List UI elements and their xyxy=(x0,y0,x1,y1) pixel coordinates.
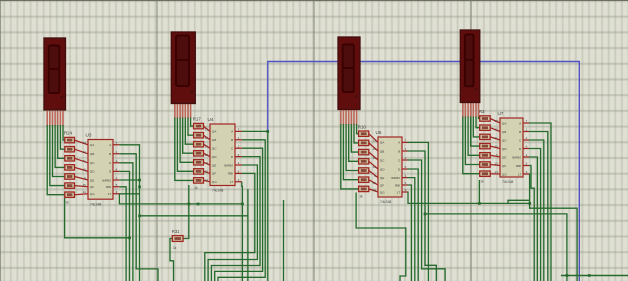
wire DISP1 common down to bottom bus xyxy=(65,198,130,238)
svg-text:QD: QD xyxy=(380,167,385,171)
svg-text:QF: QF xyxy=(380,183,384,187)
wire U7 pin B (1) down xyxy=(529,132,548,281)
resistor R17 element 6 xyxy=(194,169,204,174)
svg-text:14: 14 xyxy=(204,178,208,182)
wire DISP1 segment pin 4 to R24 resistor 4 xyxy=(55,125,65,167)
svg-text:RBI: RBI xyxy=(228,172,233,176)
resistor R3 element 5 xyxy=(480,153,491,158)
wire bus2 vertical upper extension xyxy=(247,189,249,216)
wire U3 pin LT (3) xyxy=(119,193,139,195)
wire DISP3 segment pin 2 to R10 resistor 6 xyxy=(343,124,358,180)
wire U7 pin A (7) down xyxy=(529,123,551,281)
wire U5 pin BI/RBO (4) down xyxy=(408,178,415,281)
wire junction at 129.5,237.8 xyxy=(128,237,131,240)
svg-text:QF: QF xyxy=(212,172,216,176)
svg-text:U7: U7 xyxy=(498,111,504,116)
svg-text:R3: R3 xyxy=(479,109,485,114)
svg-text:QD: QD xyxy=(90,170,95,174)
wire U4 pin A (7) junction with blue, down xyxy=(242,131,268,281)
svg-text:R17: R17 xyxy=(193,117,202,122)
svg-text:B: B xyxy=(398,149,400,153)
wire DISP3 common down under U5 and to bottom edge xyxy=(356,193,406,281)
wire U5 pin D (6) down xyxy=(408,169,419,281)
resistor R17 element 5 xyxy=(194,160,204,165)
svg-text:10: 10 xyxy=(372,165,376,169)
wire DISP1 segment pin 5 to R24 resistor 3 xyxy=(58,125,65,158)
svg-text:U4: U4 xyxy=(208,117,214,122)
wire DISP3 segment pin 7 to R10 resistor 1 xyxy=(357,124,359,134)
svg-text:QB: QB xyxy=(380,149,384,153)
svg-text:QD: QD xyxy=(502,147,507,151)
svg-text:R31: R31 xyxy=(172,229,180,234)
wire U7 pin LT (3) down to long run right xyxy=(529,174,577,281)
svg-text:1k: 1k xyxy=(359,195,363,199)
svg-text:74LS48: 74LS48 xyxy=(502,180,514,184)
wire DISP1 segment pin 7 to R24 resistor 1 xyxy=(63,125,65,140)
resistor R10 element 4 xyxy=(359,159,369,164)
resistor R24 element 7 xyxy=(65,192,75,197)
wire U7 pin RBI (5) jog down xyxy=(529,166,534,281)
7-segment display DISP2 xyxy=(171,32,195,104)
svg-text:QF: QF xyxy=(90,185,94,189)
svg-text:13: 13 xyxy=(82,141,86,145)
svg-text:15: 15 xyxy=(494,162,498,166)
resistor R17 element 2 xyxy=(194,133,204,138)
svg-text:74LS48: 74LS48 xyxy=(90,202,102,206)
wire DISP2 segment pin 1 to R17 resistor 7 xyxy=(175,118,194,181)
resistor R17 element 3 xyxy=(194,142,204,147)
decoder U3 left pin stubs xyxy=(75,140,89,195)
svg-text:LT: LT xyxy=(108,192,111,196)
resistor R31 body xyxy=(172,236,183,242)
svg-text:15: 15 xyxy=(204,170,208,174)
wire DISP1 segment pin 1 to R24 resistor 7 xyxy=(47,125,65,195)
resistor R24 element 5 xyxy=(65,174,75,179)
resistor R10 element 2 xyxy=(359,140,369,145)
wire U7 pin BI/RBO (4) down xyxy=(529,157,537,281)
7-seg display DISP2 pin leads xyxy=(175,104,191,119)
svg-text:R24: R24 xyxy=(64,131,73,136)
svg-text:QE: QE xyxy=(90,178,94,182)
svg-text:13: 13 xyxy=(494,119,498,123)
wire U5 pin LT (3) bus A xyxy=(408,192,530,203)
wire DISP3 segment pin 6 to R10 resistor 2 xyxy=(354,124,359,143)
wire DISP4 segment pin 2 to R3 resistor 6 xyxy=(465,117,479,165)
wire U3 pin D (6) down xyxy=(119,171,129,281)
svg-text:QE: QE xyxy=(502,155,506,159)
svg-text:12: 12 xyxy=(204,136,208,140)
svg-text:14: 14 xyxy=(494,170,498,174)
resistor R3 element 4 xyxy=(480,143,491,148)
svg-text:U3: U3 xyxy=(86,132,92,137)
svg-text:QB: QB xyxy=(212,138,216,142)
resistor R10 element 7 xyxy=(359,186,369,191)
wire blue net from U4 pin A up across to right side xyxy=(268,62,580,281)
decoder U4 74LS48 body xyxy=(210,124,235,186)
svg-text:RBI: RBI xyxy=(395,183,400,187)
wire junction at 139.5,180 xyxy=(138,179,141,182)
wire DISP2 segment pin 2 to R17 resistor 6 xyxy=(177,118,193,172)
wire U3 pin A (7) down and bus2 xyxy=(119,145,248,281)
svg-text:QG: QG xyxy=(212,180,217,184)
svg-text:1k: 1k xyxy=(480,179,484,183)
svg-text:QC: QC xyxy=(212,147,217,151)
7-seg display DISP3 pin leads xyxy=(341,110,357,125)
wire junction at 267.8,131.4 xyxy=(266,130,269,133)
decoder U3 right pin stubs xyxy=(113,145,119,194)
resistor R17 element 7 xyxy=(194,178,204,183)
resistor R24 element 3 xyxy=(65,156,75,161)
wire U4 pin B (1) staircase xyxy=(218,140,265,281)
wire U4 pin LT (3) down xyxy=(241,182,244,281)
wire U5 pin A (7) down xyxy=(408,142,429,281)
wire vertical net right of U4 xyxy=(283,200,285,281)
wire bottom right bus xyxy=(561,275,628,277)
wire DISP2 segment pin 6 to R17 resistor 2 xyxy=(188,118,194,136)
resistor R3 element 2 xyxy=(480,125,491,130)
svg-text:QC: QC xyxy=(380,158,385,162)
wire junction at 188.8,203.9 xyxy=(188,203,191,206)
resistor R17 element 4 xyxy=(194,151,204,156)
wire U4 pin BI/RBO (4) staircase xyxy=(208,165,257,281)
svg-text:QC: QC xyxy=(502,138,507,142)
decoder U7 left pin stubs xyxy=(490,119,500,175)
svg-text:1k: 1k xyxy=(194,186,198,190)
wire R31 lower lead to bottom edge xyxy=(170,239,174,281)
resistor R10 element 3 xyxy=(359,149,369,154)
7-seg display DISP1 pin leads xyxy=(47,111,63,126)
svg-text:13: 13 xyxy=(204,128,208,132)
decoder U7 74LS48 body xyxy=(500,118,523,177)
wire junction at 242.4,203.9 xyxy=(241,203,244,206)
wire U3 pin B (1) down to bottom jog xyxy=(119,154,158,281)
svg-text:LT: LT xyxy=(230,180,233,184)
svg-text:10: 10 xyxy=(204,153,208,157)
wire U5 pin B (1) to bus B xyxy=(408,151,426,214)
wire junction at 425,213.9 xyxy=(424,213,427,216)
svg-text:14: 14 xyxy=(82,190,86,194)
7-segment display DISP4 xyxy=(460,30,480,103)
wire DISP1 segment pin 3 to R24 resistor 5 xyxy=(53,125,65,177)
svg-text:12: 12 xyxy=(372,147,376,151)
wire DISP4 segment pin 6 to R3 resistor 2 xyxy=(476,117,480,128)
resistor R3 element 6 xyxy=(480,162,491,167)
wire DISP3 segment pin 3 to R10 resistor 5 xyxy=(346,124,359,171)
resistor R3 element 3 xyxy=(480,134,491,139)
svg-text:BI/RBO: BI/RBO xyxy=(102,178,111,182)
resistor R3 element 1 xyxy=(480,116,491,121)
wire DISP3 segment pin 1 to R10 resistor 7 xyxy=(341,124,359,189)
wire DISP1 segment pin 2 to R24 resistor 6 xyxy=(50,125,65,186)
svg-text:RBI: RBI xyxy=(106,185,111,189)
wire U3 pin BI/RBO (4) xyxy=(119,179,139,181)
wire bus A step jog xyxy=(508,200,530,203)
svg-text:11: 11 xyxy=(373,156,376,160)
wire junction at 479.4,203.4 xyxy=(478,202,481,205)
wire DISP3 segment pin 4 to R10 resistor 4 xyxy=(349,124,359,161)
7-segment display DISP1 xyxy=(44,38,66,110)
wire DISP4 segment pin 3 to R3 resistor 5 xyxy=(468,117,480,156)
wire bus1 branch from LT net xyxy=(119,194,242,204)
wire DISP4 common down to bus A xyxy=(478,180,480,203)
svg-text:QD: QD xyxy=(212,155,217,159)
wire DISP4 segment pin 1 to R3 resistor 7 xyxy=(463,117,480,174)
wire DISP2 segment pin 3 to R17 resistor 5 xyxy=(180,118,194,163)
svg-text:1k: 1k xyxy=(65,200,69,204)
7-segment display DISP3 xyxy=(338,37,360,110)
wire junction at 139.5,186.8 xyxy=(138,186,141,189)
resistor R24 element 1 xyxy=(65,137,75,142)
wire DISP2 segment pin 7 to R17 resistor 1 xyxy=(191,118,194,127)
svg-text:QE: QE xyxy=(380,176,384,180)
resistor R10 element 6 xyxy=(359,177,369,182)
svg-text:QG: QG xyxy=(380,190,385,194)
svg-text:LT: LT xyxy=(397,190,400,194)
wire U4 pin C (2) staircase xyxy=(215,148,263,281)
svg-text:QB: QB xyxy=(90,152,94,156)
svg-text:QE: QE xyxy=(212,163,216,167)
svg-text:15: 15 xyxy=(82,183,86,187)
svg-text:12: 12 xyxy=(82,150,86,154)
resistor R24 element 2 xyxy=(65,147,75,152)
svg-text:RBI: RBI xyxy=(516,164,521,168)
wire bus B branch jog down xyxy=(425,214,436,281)
decoder U5 right pin stubs xyxy=(402,142,408,192)
svg-text:B: B xyxy=(231,138,233,142)
resistor R10 element 1 xyxy=(359,131,369,136)
wire junction at 139.5,215.8 xyxy=(138,215,141,218)
svg-text:74LS48: 74LS48 xyxy=(380,200,392,204)
svg-text:10: 10 xyxy=(494,145,498,149)
svg-text:1k: 1k xyxy=(173,246,177,250)
decoder U3 74LS48 body xyxy=(88,140,113,200)
svg-text:QF: QF xyxy=(502,164,506,168)
svg-text:12: 12 xyxy=(494,128,498,132)
svg-text:15: 15 xyxy=(372,181,376,185)
svg-text:U5: U5 xyxy=(376,130,382,135)
svg-text:B: B xyxy=(519,130,521,134)
svg-text:14: 14 xyxy=(372,188,376,192)
resistor R24 element 6 xyxy=(65,183,75,188)
wire U7 pin C (2) down xyxy=(529,140,544,281)
wire DISP4 segment pin 7 to R3 resistor 1 xyxy=(479,117,480,119)
svg-text:10: 10 xyxy=(82,168,86,172)
resistor R10 element 5 xyxy=(359,168,369,173)
wire U4 pin RBI (5) staircase xyxy=(205,173,255,281)
wire DISP2 common down to resistor R31 xyxy=(183,185,189,239)
svg-text:LT: LT xyxy=(518,172,521,176)
wire bus B across to right xyxy=(425,214,567,281)
svg-text:BI/RBO: BI/RBO xyxy=(224,163,233,167)
svg-text:QB: QB xyxy=(502,130,506,134)
svg-text:11: 11 xyxy=(205,144,208,148)
svg-text:B: B xyxy=(109,152,111,156)
wire junction at 589.3,275.5 xyxy=(588,274,591,277)
svg-text:QC: QC xyxy=(90,161,95,165)
svg-text:74LS48: 74LS48 xyxy=(212,189,224,193)
wire junction at 198,203.9 xyxy=(197,203,200,206)
svg-text:11: 11 xyxy=(495,136,498,140)
wire U7 pin D (6) down xyxy=(529,149,541,281)
wire DISP4 segment pin 5 to R3 resistor 3 xyxy=(473,117,479,137)
svg-text:BI/RBO: BI/RBO xyxy=(391,176,400,180)
svg-text:13: 13 xyxy=(372,139,376,143)
wire DISP3 segment pin 5 to R10 resistor 3 xyxy=(351,124,358,152)
wire junction at 529.8,203.4 xyxy=(528,202,531,205)
wire U4 pin D (6) staircase xyxy=(211,157,260,281)
svg-text:11: 11 xyxy=(83,159,86,163)
wire U5 pin RBI (5) down xyxy=(408,185,412,281)
wire DISP2 segment pin 4 to R17 resistor 4 xyxy=(183,118,194,154)
resistor R17 element 1 xyxy=(194,123,204,128)
decoder U7 right pin stubs xyxy=(523,123,529,174)
decoder U4 right pin stubs xyxy=(235,131,242,181)
svg-text:QG: QG xyxy=(90,192,95,196)
svg-text:BI/RBO: BI/RBO xyxy=(512,155,521,159)
decoder U4 left pin stubs xyxy=(204,126,211,182)
resistor R3 element 7 xyxy=(480,171,491,176)
wire U3 pin RBI (5) down xyxy=(119,187,126,281)
svg-text:R10: R10 xyxy=(358,124,367,129)
wire U5 pin C (2) corner to bottom xyxy=(408,160,446,281)
7-seg display DISP4 pin leads xyxy=(463,103,479,118)
svg-text:QG: QG xyxy=(502,172,507,176)
wire DISP1 segment pin 6 to R24 resistor 2 xyxy=(60,125,64,149)
wire U3 pin C (2) down xyxy=(119,163,132,281)
resistor R24 element 4 xyxy=(65,165,75,170)
decoder U5 74LS48 body xyxy=(378,137,402,197)
wire junction at 566.9,275.5 xyxy=(566,274,569,277)
wire DISP2 segment pin 5 to R17 resistor 3 xyxy=(185,118,193,145)
decoder U5 left pin stubs xyxy=(369,134,378,192)
wire DISP4 segment pin 4 to R3 resistor 4 xyxy=(471,117,480,147)
